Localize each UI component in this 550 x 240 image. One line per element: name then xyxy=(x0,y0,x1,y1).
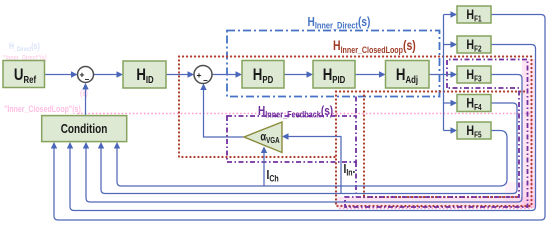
feedback wire HF5 out xyxy=(117,131,507,187)
svg-text:"Inner_ClosedLoop"(s): "Inner_ClosedLoop"(s) xyxy=(4,104,81,114)
wire ICh tap to VGA xyxy=(263,151,265,186)
blue dash-dot box H_Inner_Direct xyxy=(227,31,440,97)
feedback wire HF2 out xyxy=(70,45,536,211)
wire HID to sum2 xyxy=(166,74,190,76)
pink tint corner xyxy=(505,182,535,208)
block HF2 xyxy=(457,36,491,53)
wire bus to HF1 xyxy=(444,14,453,16)
wire bus to HF4 xyxy=(444,102,453,104)
wire HAdj to bus xyxy=(429,74,444,76)
svg-text:+: + xyxy=(197,70,202,80)
summing junction sum1 xyxy=(78,67,94,83)
pink tint bottom band xyxy=(337,197,535,208)
block HF3 xyxy=(457,66,491,83)
purple dash-dot box H_Inner_Feedback around VGA xyxy=(227,116,356,162)
feedback wire HF3 out xyxy=(86,75,522,203)
label H_Inner_Direct(s) xyxy=(308,15,371,31)
wire URef to sum1 xyxy=(45,74,74,76)
wire HPD to HPID xyxy=(284,74,309,76)
svg-text:(s): (s) xyxy=(80,88,88,98)
summing junction sum2 xyxy=(194,66,212,84)
label IIn xyxy=(344,162,356,178)
feedback wire HF1 out xyxy=(54,15,545,221)
block HF4 xyxy=(457,95,491,112)
block HF5 xyxy=(457,122,491,139)
red dotted vertical mid xyxy=(335,92,337,158)
faint pink label Inner_ClosedLoop xyxy=(4,104,81,114)
bus vertical xyxy=(443,15,445,131)
purple connector from VGA box to bottom path xyxy=(355,97,357,198)
red dotted vertical right of IIn xyxy=(363,92,365,198)
block HAdj xyxy=(386,61,430,89)
wire HPID to HAdj xyxy=(355,74,381,76)
block Condition xyxy=(42,116,127,142)
faint pink ghost s below sum1 xyxy=(80,88,88,98)
wire bus to HF2 xyxy=(444,44,453,46)
pink tint right band xyxy=(522,59,535,208)
block URef xyxy=(3,61,45,88)
wire bus to HF5 xyxy=(444,130,453,132)
label H_Inner_Feedback(s) xyxy=(258,104,333,120)
red dotted loop H_Inner_ClosedLoop xyxy=(179,57,532,207)
amplifier VGA triangle xyxy=(244,122,282,153)
wire VGA out to sum2 xyxy=(204,88,245,137)
purple dash-dot loop around HF3 and right side xyxy=(345,60,528,208)
svg-text:Condition: Condition xyxy=(61,123,108,136)
svg-text:−: − xyxy=(85,75,90,84)
wire condition to sum1 xyxy=(85,88,87,116)
block HF1 xyxy=(457,6,491,23)
wire IIn tap to VGA xyxy=(287,137,342,194)
feedback wire HF4 out xyxy=(101,103,517,194)
label H_Inner_ClosedLoop(s) xyxy=(333,38,416,56)
wire sum2 to HPD xyxy=(212,74,238,76)
red dotted along purple bottom xyxy=(364,196,519,198)
block HID xyxy=(123,61,166,88)
svg-text:−: − xyxy=(203,76,208,85)
faint ghost label H_Direct(s) top-left xyxy=(9,41,40,53)
wire bus to HF3 xyxy=(444,74,453,76)
faint pink ghost label Inner_Direct xyxy=(3,54,47,62)
label ICh xyxy=(267,168,279,184)
pink dotted box H outer closedloop xyxy=(78,114,532,209)
red dotted segment below HF3 xyxy=(336,90,525,92)
block HPD xyxy=(242,61,284,89)
block HPID xyxy=(313,61,355,89)
wire sum1 to HID xyxy=(94,74,119,76)
